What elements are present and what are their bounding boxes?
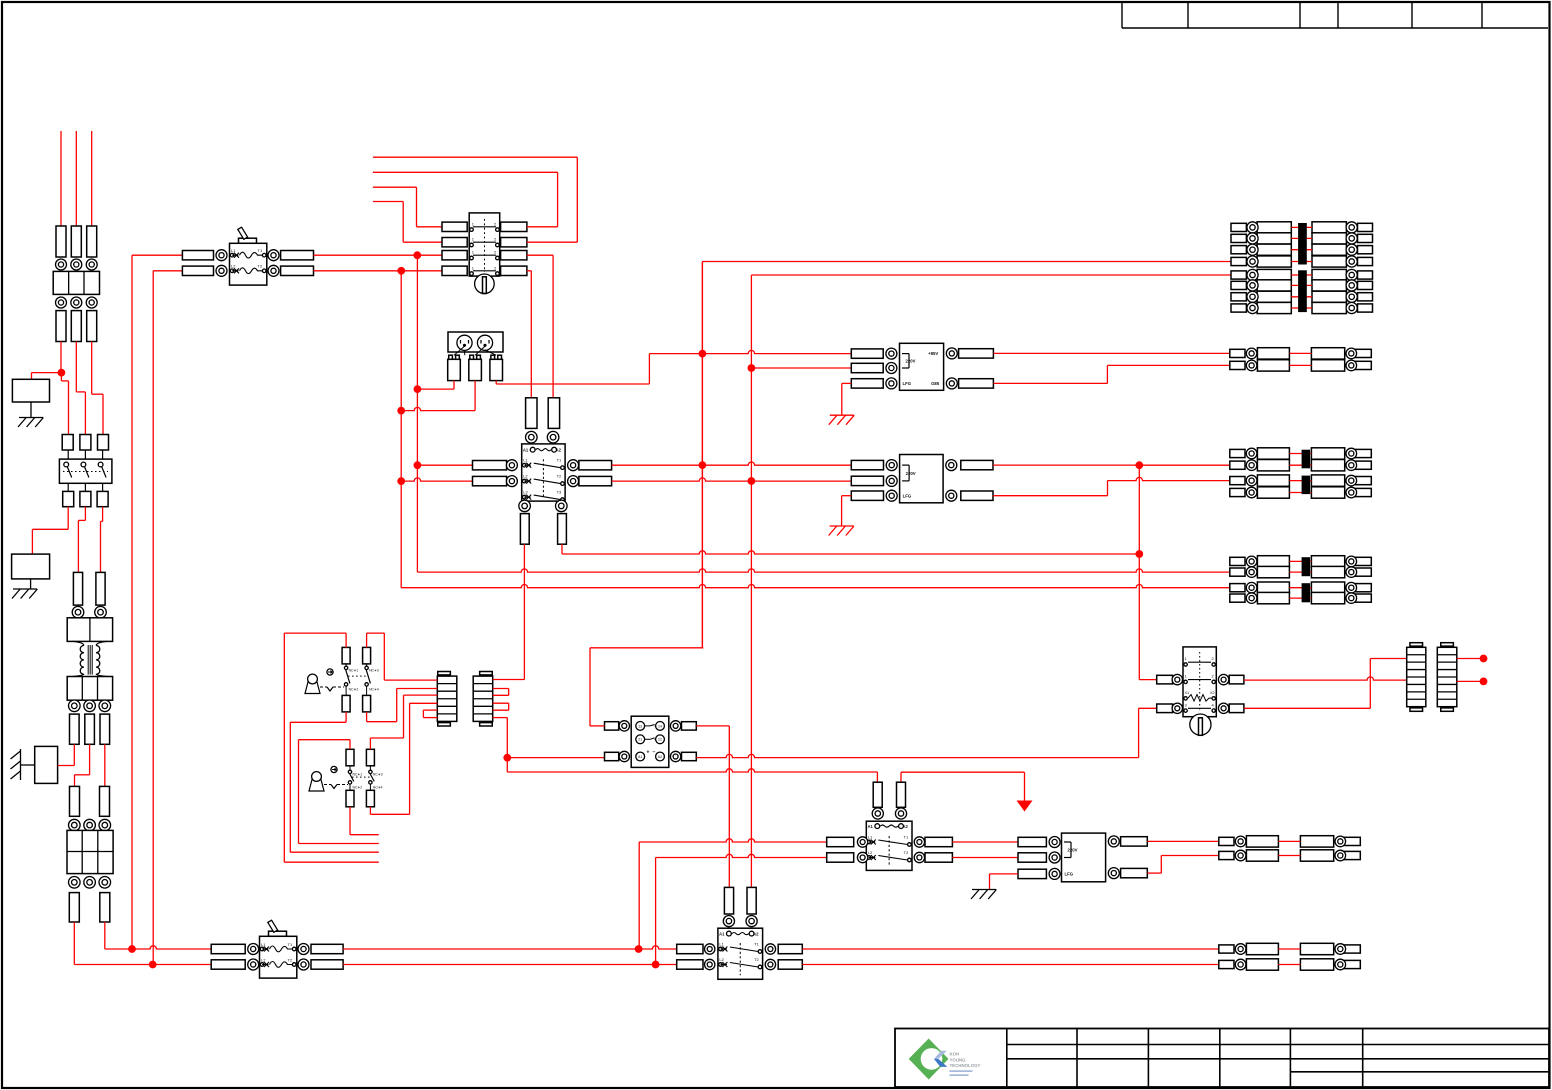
svg-text:NC∗2: NC∗2 — [349, 687, 359, 691]
svg-text:L1: L1 — [719, 942, 724, 947]
svg-text:L2: L2 — [261, 957, 266, 962]
svg-text:G85: G85 — [931, 381, 940, 386]
svg-text:T2: T2 — [904, 850, 909, 855]
svg-text:T2: T2 — [557, 474, 562, 479]
svg-text:L1: L1 — [523, 458, 528, 463]
svg-text:220V: 220V — [1068, 848, 1078, 853]
svg-text:13: 13 — [638, 724, 642, 728]
svg-text:NC∗2: NC∗2 — [353, 785, 363, 789]
svg-text:+85V: +85V — [928, 351, 938, 356]
svg-text:NC∗3: NC∗3 — [369, 668, 379, 672]
svg-text:L2: L2 — [231, 264, 236, 269]
svg-text:L2: L2 — [868, 850, 873, 855]
svg-text:T1: T1 — [754, 942, 759, 947]
svg-text:A1: A1 — [719, 932, 725, 937]
svg-text:A1: A1 — [523, 448, 529, 453]
svg-text:NC∗4: NC∗4 — [369, 687, 379, 691]
svg-text:21: 21 — [638, 738, 642, 742]
svg-text:T1: T1 — [557, 458, 562, 463]
svg-text:−: − — [653, 750, 656, 756]
svg-text:NC∗4: NC∗4 — [373, 785, 383, 789]
svg-text:220V: 220V — [906, 471, 916, 476]
svg-text:T1: T1 — [258, 248, 263, 253]
svg-text:220V: 220V — [906, 359, 916, 364]
svg-text:LFG: LFG — [903, 381, 912, 386]
svg-text:L1: L1 — [231, 248, 236, 253]
svg-text:14: 14 — [658, 724, 662, 728]
svg-text:X2: X2 — [1210, 691, 1215, 695]
svg-text:A1: A1 — [638, 755, 642, 759]
svg-text:YOUNG: YOUNG — [950, 1057, 967, 1062]
svg-text:T2: T2 — [754, 957, 759, 962]
svg-text:22: 22 — [658, 738, 662, 742]
svg-text:TECHNOLOGY: TECHNOLOGY — [950, 1063, 981, 1068]
svg-text:L2: L2 — [719, 957, 724, 962]
svg-text:L2: L2 — [523, 474, 528, 479]
svg-text:A1: A1 — [868, 824, 874, 829]
svg-text:T2: T2 — [258, 264, 263, 269]
svg-text:L3: L3 — [523, 490, 528, 495]
svg-text:NC∗1: NC∗1 — [349, 668, 359, 672]
svg-text:T2: T2 — [288, 957, 293, 962]
svg-text:L1: L1 — [261, 942, 266, 947]
svg-text:X1: X1 — [1185, 691, 1190, 695]
svg-text:NC∗1: NC∗1 — [353, 772, 363, 776]
svg-text:T1: T1 — [904, 835, 909, 840]
svg-text:T3: T3 — [557, 490, 562, 495]
svg-text:+: + — [647, 750, 650, 756]
svg-text:T1: T1 — [288, 942, 293, 947]
svg-text:NC∗3: NC∗3 — [373, 772, 383, 776]
svg-text:A2: A2 — [658, 755, 662, 759]
svg-text:LFG: LFG — [1065, 872, 1074, 877]
svg-text:L1: L1 — [868, 835, 873, 840]
svg-text:LFG: LFG — [903, 494, 912, 499]
svg-text:KOH: KOH — [950, 1052, 960, 1057]
